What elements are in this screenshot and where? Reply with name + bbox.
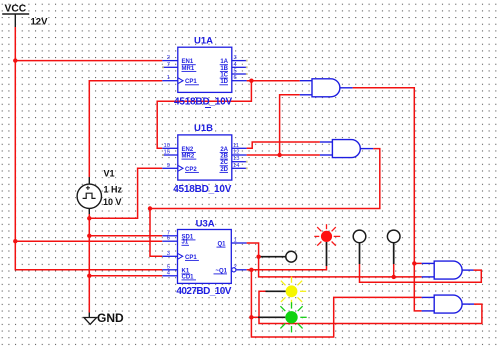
svg-text:13: 13 (233, 156, 239, 162)
svg-text:7: 7 (167, 62, 170, 68)
svg-text:2C: 2C (220, 160, 228, 166)
wire VCC to U3A J1 (15, 240, 162, 242)
wire notQ1 node down to green lamp and AND4 input A (251, 270, 421, 337)
AND gate 3 (422, 261, 474, 279)
wire V1 node to U1B CP2 (89, 168, 162, 218)
svg-text:15: 15 (164, 150, 170, 156)
wire green lamp lead red part (251, 316, 258, 318)
wire AND2 output to U3A CP1 (150, 149, 380, 257)
svg-text:1: 1 (234, 238, 237, 244)
svg-text:1C: 1C (220, 73, 228, 79)
svg-text:Q1: Q1 (217, 242, 226, 248)
svg-text:4027BD_10V: 4027BD_10V (176, 286, 231, 297)
junction green lamp tap (249, 315, 253, 319)
wire AND1 output down right side to AND4 input B (353, 88, 422, 311)
wire U1A 1D to AND1 input A (247, 80, 300, 82)
clock source V1 (77, 177, 101, 214)
junction notQ1 branch (249, 268, 253, 272)
junction CP1 U3A corner (148, 206, 152, 210)
red lamp X1 glowing (314, 224, 340, 248)
probe X4 (white circle on Q1 net) (259, 256, 286, 258)
wire U1B 2B to AND2 input B (247, 154, 320, 156)
svg-text:GND: GND (97, 311, 124, 325)
svg-text:2B: 2B (220, 154, 228, 160)
svg-text:12: 12 (233, 150, 239, 156)
svg-text:CP1: CP1 (185, 255, 197, 261)
wire AND3 output to probe X2 (360, 264, 482, 282)
wire node to AND3 input A (414, 262, 421, 264)
junction 1D carry (249, 79, 253, 83)
probe X2 (white circle right of red lamp, left one) (359, 243, 361, 264)
wire carry U1A 1D to U1B EN2 (157, 81, 251, 149)
junction VCC to J1 (13, 239, 17, 243)
svg-text:3: 3 (234, 55, 237, 61)
svg-text:10: 10 (164, 143, 170, 149)
wire V1 node to U3A SD1 (89, 235, 162, 237)
svg-text:2: 2 (167, 55, 170, 61)
svg-text:EN1: EN1 (182, 59, 194, 65)
svg-text:2D: 2D (220, 167, 228, 173)
svg-text:CD1: CD1 (182, 274, 195, 280)
wire U3A notQ1 to red lamp (247, 266, 327, 270)
AND gate 4 (422, 295, 474, 313)
svg-text:MR1: MR1 (182, 66, 195, 72)
svg-text:V1: V1 (104, 168, 115, 178)
junction V1 to SD1 (87, 234, 91, 238)
wire V1 minus down to GND (88, 214, 90, 313)
wire VCC vertical rail (15, 27, 162, 270)
svg-text:MR2: MR2 (182, 154, 195, 160)
svg-text:2A: 2A (220, 147, 228, 153)
svg-text:4518BD_10V: 4518BD_10V (174, 96, 233, 107)
svg-text:1B: 1B (220, 66, 228, 72)
wire probe X3 lead lower part (393, 264, 395, 277)
junction V1 to CD1 (87, 274, 91, 278)
junction Q1 probe tap (256, 255, 260, 259)
svg-text:3: 3 (167, 251, 170, 257)
svg-text:VCC: VCC (5, 3, 27, 14)
svg-text:J1: J1 (182, 240, 189, 246)
green lamp lead (258, 316, 285, 318)
counter U1B (162, 135, 246, 180)
wire V1 plus to U1A CP1 (89, 81, 162, 177)
svg-text:1 Hz: 1 Hz (104, 184, 123, 194)
wire V1 node to U3A CD1 (89, 275, 162, 277)
junction 2B branch (277, 153, 281, 157)
yellow lamp glowing (277, 277, 306, 306)
svg-text:U1A: U1A (194, 36, 213, 47)
svg-text:1A: 1A (220, 59, 228, 65)
svg-text:12V: 12V (31, 17, 49, 28)
svg-text:CP2: CP2 (185, 167, 197, 173)
svg-text:1D: 1D (220, 79, 228, 85)
svg-text:5: 5 (234, 69, 237, 75)
svg-text:9: 9 (167, 163, 170, 169)
svg-text:14: 14 (233, 163, 240, 169)
svg-text:11: 11 (233, 143, 239, 149)
svg-text:~Q1: ~Q1 (215, 268, 227, 274)
wire VCC to U1A EN1 (15, 60, 162, 62)
junction AND3 input A (412, 261, 416, 265)
svg-text:CP1: CP1 (185, 79, 197, 85)
red lamp lead (326, 242, 328, 266)
U1A pin names and numbers (167, 55, 238, 85)
flip-flop U3A (162, 230, 246, 284)
junction VCC to EN1 (13, 58, 17, 62)
probe X3 (white circle, right one) (393, 243, 395, 264)
wire U3A Q1 to probe node and AND3 input B (247, 243, 422, 277)
wire U1B 2A to AND2 input A (247, 142, 320, 148)
AND gate 2 (320, 140, 373, 158)
ground (84, 313, 97, 325)
svg-text:U3A: U3A (196, 219, 215, 230)
counter U1A (162, 47, 246, 92)
U1B pin names and numbers (164, 143, 241, 173)
svg-text:2: 2 (234, 264, 237, 270)
wire 2B node up to AND1 input B (280, 95, 300, 155)
AND gate 1 (300, 79, 353, 97)
VCC power symbol (2, 14, 29, 27)
svg-text:U1B: U1B (194, 123, 213, 134)
wire AND4 output to yellow lamp (259, 291, 482, 323)
svg-text:6: 6 (167, 236, 170, 242)
unconnected pin end markers (162, 60, 248, 170)
green lamp glowing (276, 302, 306, 332)
yellow lamp lead (266, 290, 286, 292)
svg-text:10 V: 10 V (103, 197, 122, 207)
junction probe X3 tap (392, 275, 396, 279)
svg-text:EN2: EN2 (182, 147, 194, 153)
svg-text:6: 6 (234, 75, 237, 81)
svg-text:1: 1 (167, 75, 170, 81)
U3A pin names and numbers (167, 230, 237, 280)
junction V1 to CP2 (87, 216, 91, 220)
svg-text:4518BD_10V: 4518BD_10V (173, 184, 232, 195)
